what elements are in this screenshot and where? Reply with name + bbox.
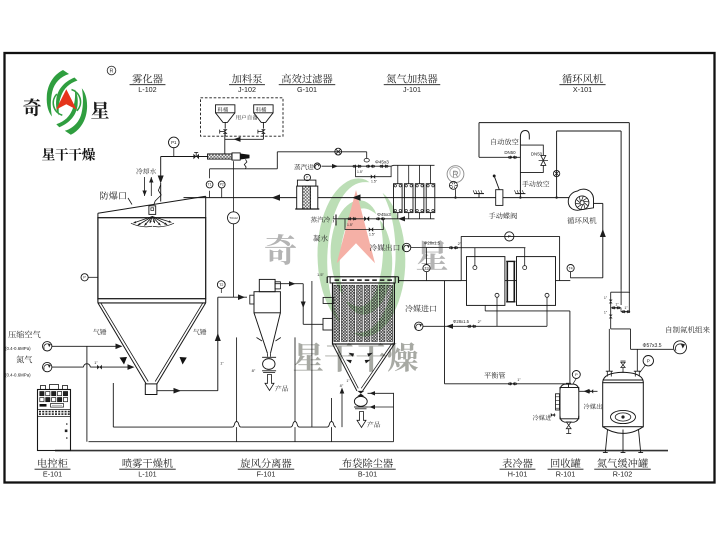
- svg-text:2": 2": [458, 241, 462, 246]
- svg-text:(0.4-0.6MPa): (0.4-0.6MPa): [5, 346, 31, 351]
- svg-text:B-101: B-101: [358, 470, 377, 479]
- svg-text:T3: T3: [424, 266, 428, 270]
- svg-text:J-101: J-101: [403, 85, 421, 94]
- svg-text:G-101: G-101: [297, 85, 317, 94]
- svg-text:1.5": 1.5": [347, 223, 354, 227]
- svg-text:TICA2: TICA2: [229, 216, 238, 220]
- svg-text:R: R: [452, 169, 459, 179]
- svg-text:P2: P2: [220, 183, 224, 187]
- svg-text:R: R: [110, 69, 114, 75]
- svg-text:Φ57x3.5: Φ57x3.5: [642, 343, 661, 349]
- svg-text:R-102: R-102: [613, 470, 633, 479]
- svg-text:DN50: DN50: [504, 150, 516, 155]
- svg-text:8": 8": [340, 383, 344, 388]
- svg-text:F-101: F-101: [257, 470, 276, 479]
- svg-text:H-101: H-101: [508, 470, 528, 479]
- svg-text:L-102: L-102: [138, 85, 156, 94]
- svg-text:Φ28x1.5: Φ28x1.5: [424, 241, 441, 246]
- svg-text:P: P: [647, 358, 650, 363]
- svg-text:X-101: X-101: [573, 85, 592, 94]
- svg-text:R-101: R-101: [556, 470, 576, 479]
- svg-text:(0.4-0.6MPa): (0.4-0.6MPa): [5, 373, 31, 378]
- svg-text:L-101: L-101: [138, 470, 156, 479]
- svg-text:Φ45x3: Φ45x3: [375, 159, 389, 164]
- svg-text:8": 8": [252, 368, 256, 373]
- svg-text:1.5": 1.5": [369, 232, 376, 236]
- svg-text:1.5": 1.5": [357, 170, 364, 174]
- svg-text:1.5": 1.5": [371, 180, 378, 184]
- svg-text:T4: T4: [568, 266, 572, 270]
- svg-text:P: P: [575, 372, 578, 377]
- svg-text:1.5": 1.5": [317, 273, 324, 277]
- svg-text:J-102: J-102: [238, 85, 256, 94]
- svg-text:Φ45x3: Φ45x3: [377, 212, 391, 217]
- svg-text:T2: T2: [219, 283, 223, 287]
- svg-text:P1: P1: [171, 140, 177, 145]
- svg-text:T1: T1: [208, 183, 212, 187]
- svg-text:P: P: [508, 234, 511, 239]
- svg-text:Φ28x1.5: Φ28x1.5: [453, 319, 470, 324]
- svg-text:E-101: E-101: [43, 470, 62, 479]
- svg-text:2": 2": [478, 319, 482, 324]
